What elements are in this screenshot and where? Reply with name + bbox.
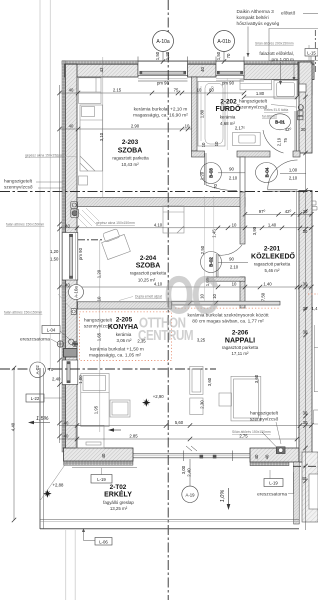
svg-text:3,10: 3,10 [99, 132, 104, 141]
svg-text:75: 75 [283, 138, 288, 143]
svg-text:40: 40 [101, 453, 106, 458]
window A-02 in left wall lower [62, 360, 78, 385]
svg-text:17,11 m²: 17,11 m² [231, 351, 249, 356]
svg-text:2,17⁵: 2,17⁵ [235, 126, 245, 131]
kitchen counter along left wall [81, 374, 109, 427]
L-22 label box [26, 394, 44, 402]
svg-text:10: 10 [185, 124, 190, 129]
A-01b top tag [214, 31, 235, 52]
svg-text:kompakt beltéri: kompakt beltéri [237, 15, 269, 21]
svg-text:A-02: A-02 [35, 365, 40, 375]
svg-text:FÜRDŐ: FÜRDŐ [216, 104, 241, 113]
room 2-203 SZOBA label [112, 139, 149, 167]
right wall inner lining line [296, 97, 298, 153]
neighbour wall notch marks [312, 201, 316, 205]
kitchen lower cabinet [76, 426, 104, 449]
bathroom counter [240, 80, 272, 90]
svg-text:2-206: 2-206 [232, 330, 249, 337]
room 2-202 FURDO label [216, 99, 241, 127]
svg-text:L-19: L-19 [97, 477, 106, 482]
room 2-204 SZOBA label [130, 255, 167, 283]
svg-text:ragasztott parketta: ragasztott parketta [254, 262, 291, 267]
balcony left edge double line [39, 368, 41, 529]
bathroom left wall [192, 77, 198, 151]
svg-text:A-01b: A-01b [217, 39, 231, 45]
svg-text:ERKÉLY: ERKÉLY [104, 490, 132, 499]
svg-text:A-10a: A-10a [74, 286, 79, 298]
dim line y287 lower [59, 286, 312, 288]
svg-text:10,25 m²: 10,25 m² [138, 278, 156, 283]
L-04 label box [42, 326, 60, 334]
svg-text:1,20: 1,20 [96, 269, 101, 278]
svg-text:1,50: 1,50 [50, 257, 59, 262]
svg-text:1,20: 1,20 [165, 51, 170, 60]
svg-text:1.40: 1.40 [263, 282, 272, 287]
svg-text:1,95: 1,95 [94, 405, 99, 414]
thin wall between kozlekedo and nappali [172, 301, 281, 305]
svg-text:KONYHA: KONYHA [108, 324, 138, 331]
svg-text:pm 90: pm 90 [157, 81, 170, 86]
insulation band bottom-right [250, 462, 289, 466]
left exterior wall [65, 64, 77, 452]
door B-03 swing arc [206, 185, 237, 191]
svg-text:2-204: 2-204 [140, 255, 157, 262]
svg-text:2-205: 2-205 [116, 317, 133, 324]
svg-text:kerámia: kerámia [116, 332, 132, 337]
svg-text:L-06: L-06 [99, 539, 108, 544]
svg-text:L-15: L-15 [307, 50, 316, 55]
svg-text:1,0%: 1,0% [220, 490, 226, 503]
svg-text:fal áttörés: fal áttörés [262, 115, 277, 119]
svg-text:pm 1,00 m: pm 1,00 m [272, 57, 294, 63]
svg-text:Reles ELS tábla: Reles ELS tábla [264, 108, 288, 112]
svg-text:10: 10 [232, 222, 237, 227]
interior wall between rooms 2-203 and 2-204 [77, 198, 245, 207]
insulation band top [62, 61, 314, 65]
svg-text:gépész akna 150x150mm: gépész akna 150x150mm [96, 221, 135, 225]
svg-text:KÖZLEKEDŐ: KÖZLEKEDŐ [251, 252, 296, 261]
top-right corner block [298, 62, 312, 95]
svg-text:hangszigetelt: hangszigetelt [84, 318, 113, 324]
svg-text:Sílán áttörés 150x150mm: Sílán áttörés 150x150mm [232, 430, 271, 434]
balcony 2-T02 ERKELY label [103, 484, 134, 511]
svg-text:10: 10 [201, 142, 206, 147]
svg-text:hangszigetelt: hangszigetelt [4, 179, 33, 185]
svg-text:2-T02: 2-T02 [110, 484, 127, 491]
svg-text:kerámia: kerámia [220, 115, 236, 120]
svg-text:40: 40 [64, 434, 69, 439]
bathroom bottom wall segment 1 [192, 151, 205, 157]
svg-text:kerámia burkolat +1,50 m: kerámia burkolat +1,50 m [90, 347, 144, 353]
room 2-201 KOZLEKEDO label [251, 246, 296, 274]
svg-text:13,25 m²: 13,25 m² [110, 506, 128, 511]
svg-text:előtető: előtető [281, 11, 296, 17]
svg-text:hangszigetelt: hangszigetelt [239, 99, 268, 105]
left vertical dim line [59, 85, 61, 443]
svg-text:4,68 m²: 4,68 m² [220, 121, 235, 126]
svg-text:40: 40 [64, 421, 69, 426]
svg-text:7,50: 7,50 [260, 292, 265, 301]
svg-text:hangszigetelt: hangszigetelt [250, 411, 279, 417]
small box in right wall [299, 84, 306, 92]
orange heating zone line right [175, 307, 280, 309]
svg-text:90: 90 [229, 257, 234, 262]
door B-02 swing arc [218, 245, 242, 255]
svg-text:43: 43 [99, 67, 104, 72]
dim line y211.5 kozlekedo top [245, 213, 312, 215]
svg-text:1,00: 1,00 [78, 375, 83, 384]
svg-text:2.10: 2.10 [230, 265, 239, 270]
svg-text:magasságig, ca. 16,90 m²: magasságig, ca. 16,90 m² [133, 113, 188, 119]
svg-text:10: 10 [214, 141, 219, 146]
neighbour room outlines right edge [313, 325, 315, 392]
svg-text:10: 10 [197, 88, 202, 93]
partition wall left of kozlekedo upper [240, 157, 245, 192]
dim line y425.5 [59, 425, 312, 427]
horizontal centerline axis y192 [0, 191, 318, 193]
bed room 2-204 [163, 206, 184, 233]
horizontal centerline stub y466 right [293, 465, 318, 467]
entry door B-04 swing arc [268, 160, 298, 190]
partition wall left of kozlekedo lower [240, 277, 245, 308]
svg-text:97⁰: 97⁰ [259, 209, 266, 214]
insulation band left [62, 61, 66, 452]
svg-text:2,30: 2,30 [200, 400, 205, 409]
L-19 label box balcony [91, 475, 112, 484]
balcony side wall strip (right) [294, 462, 300, 524]
svg-text:3,00: 3,00 [181, 465, 186, 474]
svg-text:ragasztott parketta: ragasztott parketta [130, 271, 167, 276]
svg-text:szennyvízcső: szennyvízcső [84, 324, 113, 330]
svg-text:4,40: 4,40 [11, 422, 16, 431]
room 2-205 KONYHA label [108, 317, 138, 344]
nappali small table [219, 393, 232, 406]
svg-text:40: 40 [69, 124, 74, 129]
svg-text:1,65: 1,65 [96, 332, 101, 341]
night table 2-203 [79, 176, 88, 185]
window W1 in top wall [138, 57, 188, 82]
elotato dashed axis top right [314, 30, 316, 73]
left wall edge guide lines extended below [65, 530, 67, 600]
svg-text:SZOBA: SZOBA [136, 263, 161, 270]
svg-text:1,20: 1,20 [199, 171, 204, 180]
L-15 label box [305, 49, 318, 57]
svg-text:1,20: 1,20 [50, 249, 59, 254]
svg-text:40: 40 [65, 282, 70, 287]
balcony left guide line inner [49, 0, 51, 368]
svg-text:1,50: 1,50 [155, 51, 160, 60]
svg-text:90: 90 [229, 167, 234, 172]
A-19 tag [182, 486, 198, 502]
L-06 label box [95, 538, 112, 546]
door B-03 tag circle [201, 163, 222, 184]
svg-text:szennyvízcső: szennyvízcső [4, 185, 33, 191]
svg-text:falán áttörés 150x150mm: falán áttörés 150x150mm [4, 311, 42, 315]
svg-text:2.85: 2.85 [129, 434, 138, 439]
svg-text:2,75: 2,75 [239, 434, 248, 439]
svg-text:1,5%: 1,5% [36, 416, 49, 422]
sliding door tick marks [200, 455, 204, 459]
svg-text:ragasztott parketta: ragasztott parketta [112, 156, 149, 161]
partition wall stub left of door B-02 [207, 277, 245, 281]
svg-text:70: 70 [213, 184, 218, 189]
svg-text:1.80: 1.80 [256, 91, 265, 96]
svg-text:80: 80 [209, 88, 214, 93]
svg-text:1,40: 1,40 [268, 222, 277, 227]
neighbour wall white notch [309, 474, 318, 509]
watermark OC [164, 264, 219, 325]
horizontal centerline axis y369 [0, 368, 216, 370]
svg-text:NAPPALI: NAPPALI [225, 338, 255, 345]
horizontal centerline stub y240 [78, 239, 103, 241]
nappali glass wall to balcony [133, 446, 250, 461]
door B-01 swing arc [263, 130, 284, 153]
svg-text:falazott előtétfal,: falazott előtétfal, [259, 51, 294, 57]
neighbour wall block bottom-right [302, 452, 318, 522]
svg-text:4.10: 4.10 [154, 222, 163, 227]
vertical ext line x102.8 with 43 and 3,10 [102, 57, 104, 197]
desk chair room 2-204 [99, 227, 130, 260]
drain box at bottom wall [276, 447, 285, 454]
svg-text:1,50: 1,50 [216, 51, 221, 60]
window A-10a in left wall [62, 233, 78, 281]
svg-text:3,60: 3,60 [254, 374, 259, 383]
svg-text:10,43 m²: 10,43 m² [121, 162, 139, 167]
bottom-left exterior wall [64, 448, 134, 461]
door B-01 tag ellipse [270, 114, 291, 130]
orange heating zone rect konyha [80, 312, 172, 361]
svg-text:3,06 m²: 3,06 m² [117, 338, 132, 343]
right exterior wall lower [299, 191, 312, 463]
svg-text:3,90: 3,90 [252, 226, 257, 235]
svg-text:SZOBA: SZOBA [118, 148, 143, 155]
pipe box at kitchen wall corner [71, 309, 76, 315]
svg-text:40: 40 [254, 454, 259, 459]
svg-text:falán áttörés 150x150mm: falán áttörés 150x150mm [6, 223, 44, 227]
vertical centerline axis [167, 0, 169, 600]
top wall left segment [65, 64, 139, 77]
A-10a top tag [153, 31, 174, 52]
svg-text:2.90: 2.90 [131, 124, 140, 129]
svg-text:70: 70 [226, 53, 231, 58]
wall pipe fixtures upper [71, 202, 79, 218]
svg-text:szennyvízcső: szennyvízcső [250, 417, 279, 423]
svg-text:10: 10 [232, 282, 237, 287]
svg-text:ereszcsatorna: ereszcsatorna [257, 492, 287, 498]
svg-text:2,40: 2,40 [187, 468, 192, 477]
nappali cabinet lower [190, 398, 203, 415]
svg-text:+2,88: +2,88 [53, 483, 64, 488]
room 2-206 NAPPALI label [222, 330, 259, 357]
svg-text:hőszivattyús egység: hőszivattyús egység [237, 21, 280, 27]
svg-text:70: 70 [49, 367, 54, 372]
svg-text:5,46 m²: 5,46 m² [265, 268, 280, 273]
elotato canopy outline [269, 29, 318, 61]
top wall right segment with elotetfal [244, 64, 314, 79]
right wall fixtures [298, 105, 304, 120]
svg-text:42⁰: 42⁰ [285, 127, 292, 132]
svg-text:A-10a: A-10a [156, 39, 170, 45]
dim line y97 bathroom top [244, 96, 297, 98]
A-10a side tag [69, 285, 84, 300]
arrow down-left at balcony top wall [110, 429, 121, 431]
A-02 tag [30, 362, 46, 378]
svg-text:L-22: L-22 [31, 396, 40, 401]
svg-text:magasságig, ca. 1,05 m²: magasságig, ca. 1,05 m² [89, 353, 141, 359]
dark shaft block in left wall [64, 349, 78, 358]
kitchen chair [110, 400, 130, 417]
entry door B-04 leaf [268, 189, 298, 191]
svg-text:pm 90: pm 90 [222, 81, 235, 86]
svg-text:ragasztott parketta: ragasztott parketta [222, 345, 259, 350]
svg-text:2,10: 2,10 [289, 176, 298, 181]
window W2 in top wall [216, 57, 244, 82]
door B-03 leaf [203, 153, 205, 185]
svg-text:1,00: 1,00 [289, 168, 298, 173]
vertical dims center column x99 [99, 240, 101, 432]
svg-text:5,60: 5,60 [175, 420, 184, 425]
svg-text:A-19: A-19 [185, 492, 195, 497]
balcony 4,40 vertical dim [13, 368, 15, 520]
svg-text:30: 30 [303, 306, 308, 311]
balcony slope diagonal [40, 463, 67, 502]
wall pipe fixtures konyha [57, 339, 78, 347]
bathroom bathtub [198, 81, 225, 146]
svg-text:B-04: B-04 [264, 167, 269, 177]
top wall pillar between windows [188, 64, 217, 77]
wall between 2-204 and konyha [78, 302, 172, 309]
svg-text:40: 40 [200, 67, 205, 72]
dim extension line in bathroom [226, 78, 228, 150]
dim line y231.5 room 2-204 width [59, 227, 312, 229]
svg-text:2,40: 2,40 [52, 377, 61, 382]
svg-text:pm 90: pm 90 [78, 247, 83, 260]
dim line y129 [59, 128, 192, 130]
svg-text:kerámia burkolat +2,10 m: kerámia burkolat +2,10 m [134, 107, 188, 113]
bed room 2-203 [80, 105, 103, 171]
svg-text:CENTRUM: CENTRUM [138, 327, 194, 344]
hangszigetelt szennyvizcso bathroom [271, 105, 296, 108]
washing machine [274, 80, 297, 99]
elevation mark +2,88 balcony [43, 489, 51, 497]
nappali cabinet upper [190, 366, 203, 394]
closet room 2-203 [79, 78, 102, 104]
svg-text:2.15: 2.15 [113, 88, 122, 93]
bathroom bottom wall segment 3 [293, 151, 300, 157]
entry door B-04 tag ellipse [256, 163, 278, 183]
right vertical dim line x305.5 [305, 85, 307, 530]
svg-text:2,50: 2,50 [200, 245, 205, 254]
door B-02 leaf [215, 254, 217, 277]
svg-text:L-19: L-19 [269, 481, 278, 486]
svg-text:2-203: 2-203 [122, 139, 139, 146]
svg-text:40: 40 [69, 88, 74, 93]
svg-text:gépész akna 150x150mm: gépész akna 150x150mm [25, 154, 64, 158]
svg-text:Daikin Altherma 3: Daikin Altherma 3 [237, 9, 275, 15]
door B-01 leaf [294, 111, 296, 151]
svg-text:40: 40 [265, 454, 270, 459]
balcony left guide line outer [39, 0, 41, 368]
svg-text:10: 10 [96, 296, 101, 301]
svg-text:75: 75 [174, 88, 179, 93]
right exterior wall upper [299, 62, 312, 153]
svg-text:B-03: B-03 [209, 168, 214, 178]
nappali sofa [231, 376, 261, 421]
svg-text:2,19: 2,19 [277, 137, 282, 146]
L-19 label box right [264, 479, 283, 487]
svg-text:L-04: L-04 [47, 328, 56, 333]
dim line y439 [59, 438, 297, 440]
watermark OTTHON CENTRUM [139, 314, 186, 331]
svg-text:30: 30 [301, 127, 306, 132]
bottom-right exterior wall corner [250, 448, 299, 462]
svg-text:3,25: 3,25 [197, 338, 206, 343]
svg-text:42⁰: 42⁰ [285, 209, 292, 214]
svg-text:Sílán áttörés 200x150mm: Sílán áttörés 200x150mm [255, 42, 294, 46]
svg-text:1,4: 1,4 [312, 306, 319, 311]
door B-02 tag circle [201, 252, 222, 273]
dim line y93 top interior [59, 92, 244, 94]
svg-text:+2,90: +2,90 [153, 394, 164, 399]
svg-text:40: 40 [302, 476, 307, 481]
svg-text:fagyálló greslap: fagyálló greslap [103, 500, 134, 505]
bathroom sink cabinet [233, 133, 261, 146]
balcony bottom edge lines [40, 519, 299, 521]
bathroom bottom wall segment 2 [237, 151, 270, 157]
svg-text:B-01: B-01 [275, 120, 285, 125]
svg-text:Dupla emelt aljzat: Dupla emelt aljzat [135, 295, 162, 299]
svg-text:2.10: 2.10 [229, 176, 238, 181]
svg-text:2-202: 2-202 [220, 99, 237, 106]
svg-text:ereszcsatorna: ereszcsatorna [20, 337, 50, 343]
svg-text:1,80: 1,80 [199, 109, 204, 118]
elevation mark +2,90 [142, 398, 150, 406]
svg-text:3,60: 3,60 [207, 377, 212, 386]
svg-text:2-201: 2-201 [264, 246, 281, 253]
insulation band bottom-left [64, 461, 134, 465]
shaft diagonal lines [78, 208, 99, 228]
